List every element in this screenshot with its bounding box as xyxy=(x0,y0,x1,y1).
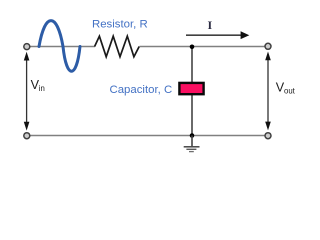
svg-text:in: in xyxy=(39,84,45,93)
label Vin xyxy=(31,78,45,93)
svg-text:out: out xyxy=(284,86,296,95)
node top junction xyxy=(190,45,195,50)
label I xyxy=(208,18,213,32)
voltage arrow Vout xyxy=(265,52,271,131)
wire capacitor branch vertical xyxy=(191,47,193,136)
current arrow I xyxy=(186,31,249,39)
node terminal bottom-left xyxy=(24,133,30,139)
label Resistor, R xyxy=(92,18,148,30)
label Capacitor, C xyxy=(110,84,173,96)
node terminal bottom-right xyxy=(265,133,271,139)
wire bottom segment xyxy=(30,135,266,137)
resistor R xyxy=(95,36,140,57)
capacitor C xyxy=(179,83,203,94)
node terminal top-left xyxy=(24,44,30,50)
voltage arrow Vin xyxy=(24,52,30,131)
ground xyxy=(184,136,200,152)
node bottom junction xyxy=(190,133,195,138)
AC source sine wave xyxy=(39,21,80,72)
svg-text:Resistor, R: Resistor, R xyxy=(92,18,148,30)
svg-text:I: I xyxy=(208,18,213,32)
node terminal top-right xyxy=(265,43,271,49)
wire top left segment xyxy=(30,46,96,48)
wire top right segment xyxy=(140,46,266,48)
svg-text:Capacitor, C: Capacitor, C xyxy=(110,84,173,96)
label Vout xyxy=(276,80,296,95)
